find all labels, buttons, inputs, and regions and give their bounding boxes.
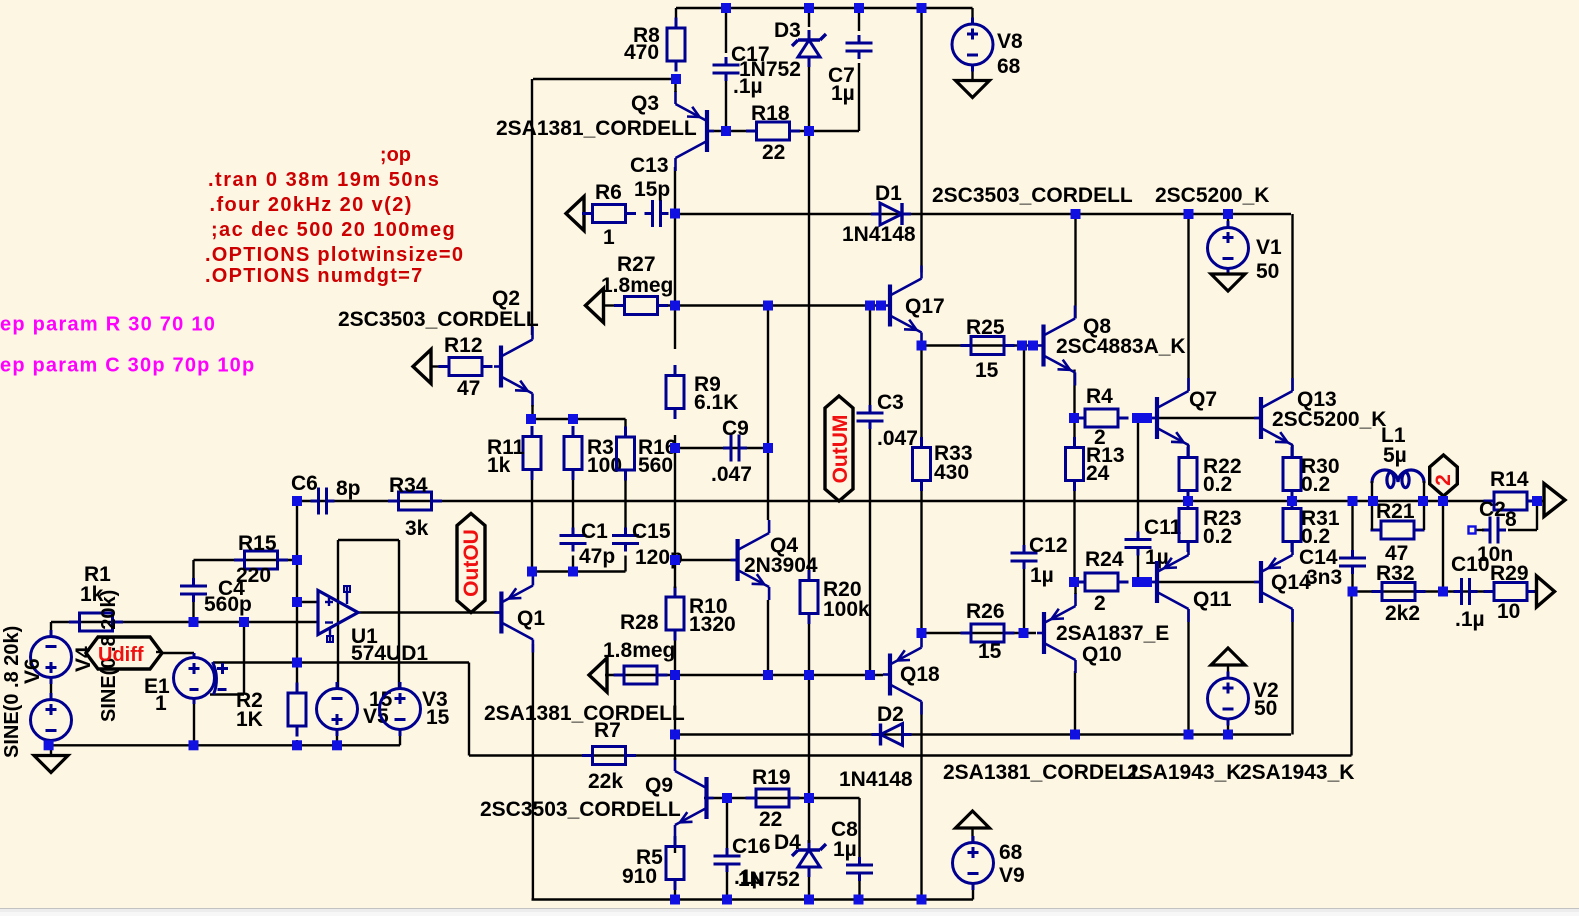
wire C19 riser	[726, 798, 728, 848]
wire D2 rail	[675, 733, 1292, 735]
resistor R33	[913, 437, 931, 491]
wire C17 top	[725, 8, 727, 53]
wire D4 top link	[808, 798, 810, 843]
wire D3 node down to R20	[808, 131, 810, 571]
wire C16 bottom	[726, 872, 728, 900]
wire Q4 top junction	[767, 306, 769, 449]
junction R19 left	[722, 793, 732, 803]
capacitor C4	[180, 578, 207, 602]
svg-text:1µ: 1µ	[831, 82, 855, 105]
junction C13/D1	[670, 209, 680, 219]
junction C17 top	[721, 3, 731, 13]
svg-text:C10: C10	[1451, 553, 1490, 576]
svg-text:C13: C13	[630, 154, 669, 177]
svg-text:1k: 1k	[487, 454, 511, 477]
wire R9 bottom to C9	[674, 435, 676, 560]
wire E1 out top	[193, 653, 195, 658]
capacitor C15	[612, 528, 639, 552]
transistor Q18	[883, 635, 922, 715]
wire R13 top	[1073, 418, 1075, 440]
junction spine R28	[670, 670, 680, 680]
svg-text:C16: C16	[732, 835, 771, 858]
wire R20 bottom	[808, 623, 810, 675]
capacitor C8	[846, 857, 873, 881]
svg-text:2SC3503_CORDELL: 2SC3503_CORDELL	[480, 798, 681, 821]
junction node2 bus	[1438, 496, 1448, 506]
wire V6 bottom stub	[50, 741, 52, 746]
svg-text:R34: R34	[389, 474, 428, 497]
zener diode D3	[792, 30, 826, 67]
svg-text:C15: C15	[632, 520, 671, 543]
wire V8 rail to Q17 collector	[920, 8, 922, 273]
wire U1 output to Q1 base	[358, 611, 502, 613]
svg-text:1N752: 1N752	[739, 58, 801, 81]
svg-text:1N4148: 1N4148	[839, 768, 913, 791]
net flag Udiff	[86, 637, 162, 669]
junction C14 bus	[1348, 496, 1358, 506]
voltage source V9	[953, 836, 994, 890]
svg-text:1: 1	[155, 692, 167, 715]
svg-text:C12: C12	[1029, 534, 1068, 557]
capacitor C12	[1011, 545, 1038, 569]
wire output base line upper	[1145, 417, 1261, 419]
wire R8 top stub	[675, 8, 677, 28]
wire feedback riser	[1350, 592, 1352, 756]
wire C17 bottom	[725, 77, 727, 131]
wire R7 feedback line	[469, 754, 1352, 756]
wire V8 gnd stub	[971, 65, 973, 81]
svg-text:R29: R29	[1490, 562, 1529, 585]
junction R30/R31	[1287, 496, 1297, 506]
diode D1	[871, 203, 911, 225]
svg-text:R19: R19	[752, 766, 791, 789]
resistor R3	[564, 426, 582, 480]
wire Q1 collector drop	[532, 644, 534, 900]
junction L1 left	[1368, 496, 1378, 506]
junction bus left	[292, 496, 302, 506]
wire Q4 emitter to R28	[767, 600, 769, 675]
wire Q8 collector riser	[1074, 214, 1076, 319]
wire C11 bottom	[1137, 556, 1139, 583]
svg-text:24: 24	[1086, 462, 1110, 485]
svg-text:.tran 0 38m 19m 50ns: .tran 0 38m 19m 50ns	[208, 169, 440, 191]
wire R6 flag stub	[583, 212, 592, 214]
wire V4-V6 link	[50, 678, 52, 700]
transistor Q7	[1150, 378, 1189, 458]
wire L1 right stub	[1423, 481, 1425, 501]
wire Q11 collector drop	[1187, 609, 1189, 735]
wire C14 top stub	[1351, 501, 1353, 550]
svg-text:8: 8	[1505, 508, 1517, 531]
svg-text:;op: ;op	[380, 144, 411, 166]
svg-text:C2: C2	[1479, 498, 1506, 521]
wire C1 bottom stub	[572, 556, 574, 572]
svg-text:R4: R4	[1086, 385, 1113, 408]
wire R29 to flag	[1526, 590, 1538, 592]
resistor R12	[439, 358, 493, 376]
svg-text:Q3: Q3	[631, 92, 659, 115]
wire Q18 collector drop	[920, 702, 922, 900]
svg-text:10: 10	[1497, 600, 1520, 623]
wire U1 loop left	[337, 540, 339, 689]
wire Q4 base	[675, 559, 738, 561]
junction V1	[1223, 209, 1233, 219]
capacitor C1	[560, 528, 587, 552]
svg-text:50: 50	[1256, 260, 1279, 283]
svg-text:Q1: Q1	[517, 607, 545, 630]
resistor R23	[1179, 498, 1197, 552]
wire Udiff to E1	[162, 652, 194, 654]
resistor R4	[1075, 409, 1129, 427]
svg-text:R6: R6	[595, 181, 622, 204]
capacitor C14	[1339, 550, 1366, 574]
svg-text:1.8meg: 1.8meg	[603, 639, 675, 662]
junction Q10 base net	[1019, 628, 1029, 638]
net flag OutUM	[825, 396, 853, 501]
output flag (bus)	[1544, 484, 1565, 517]
resistor R14	[1484, 492, 1538, 510]
ground below V8	[956, 81, 990, 98]
junction V2 net	[1223, 730, 1233, 740]
wire R27 flag stub	[603, 304, 616, 306]
svg-text:R25: R25	[966, 316, 1005, 339]
junction D3 top	[804, 3, 814, 13]
wire V+ top rail	[676, 7, 973, 9]
wire fb elbow down	[468, 663, 470, 756]
wire R21 left stub	[1371, 501, 1373, 530]
junction Q17 emitter	[917, 341, 927, 351]
svg-text:100k: 100k	[823, 598, 870, 621]
wire R12 flag stub	[430, 365, 440, 367]
svg-text:22: 22	[759, 808, 782, 831]
junction Q4 collector net	[763, 301, 773, 311]
svg-text:D3: D3	[774, 19, 801, 42]
wire C9 left	[675, 447, 768, 449]
svg-text:Q11: Q11	[1193, 588, 1232, 611]
resistor R2	[288, 683, 306, 737]
svg-text:C9: C9	[722, 417, 749, 440]
svg-text:Q17: Q17	[905, 295, 945, 318]
svg-text:R26: R26	[966, 600, 1005, 623]
capacitor C10	[1454, 578, 1478, 605]
wire C3 lower	[869, 429, 871, 675]
resistor R1	[69, 613, 123, 631]
junction C3 top	[865, 301, 875, 311]
wire R8 bottom to Q3 emitter node	[533, 78, 676, 80]
junction C8 bottom	[854, 895, 864, 905]
svg-text:2SA1381_CORDELL: 2SA1381_CORDELL	[484, 702, 685, 725]
junction Q18 emitter net	[917, 628, 927, 638]
wire R11 bottom	[531, 470, 533, 572]
svg-text:1µ: 1µ	[1030, 564, 1054, 587]
wire R5 bottom	[674, 888, 676, 900]
svg-text:OutOU: OutOU	[460, 529, 483, 597]
wire R15 line	[194, 559, 298, 561]
svg-text:15: 15	[975, 359, 999, 382]
svg-text:D4: D4	[774, 831, 801, 854]
window bottom scrollbar strip	[0, 908, 1579, 916]
wire C15 bottom stub	[624, 556, 626, 572]
capacitor C3	[857, 405, 884, 429]
voltage source V3	[380, 682, 421, 736]
junction C17 bottom	[721, 126, 731, 136]
wire R16 bottom to C15	[624, 470, 626, 532]
wire output base line lower	[1145, 581, 1261, 583]
svg-text:Q14: Q14	[1271, 571, 1311, 594]
svg-text:2N3904: 2N3904	[744, 554, 818, 577]
junction E1 ctrl	[239, 617, 249, 627]
inductor L1	[1372, 470, 1424, 488]
wire output bus right	[1526, 500, 1545, 502]
wire V5 bottom stub	[336, 730, 338, 746]
svg-text:8p: 8p	[336, 477, 361, 500]
capacitor C16	[714, 848, 741, 872]
junction C7 top	[854, 3, 864, 13]
wire C12 riser	[1023, 346, 1025, 546]
voltage source V8	[952, 18, 993, 72]
wire V2 gnd stub	[1227, 665, 1229, 678]
wire Q13 emitter to R30	[1291, 444, 1293, 448]
wire C14 bottom stub	[1351, 574, 1353, 592]
wire D4 bottom	[808, 876, 810, 900]
wire Q13 collector riser	[1291, 214, 1293, 391]
junction V6 gnd	[44, 740, 54, 750]
wire Q9 emitter to R5	[674, 838, 676, 853]
junction E1 out	[189, 740, 199, 750]
wire E1 out bottom	[193, 699, 195, 746]
transistor Q1	[494, 573, 533, 653]
resistor R27	[614, 297, 668, 315]
wire R2 top stub	[296, 663, 298, 687]
junction Q18 collector net	[917, 895, 927, 905]
svg-text:C11: C11	[1144, 516, 1182, 539]
wire U1 supply loop top	[338, 539, 399, 541]
wire V8 drop	[971, 8, 973, 24]
wire C7 top	[858, 8, 860, 31]
junction Q7 collector	[1184, 209, 1194, 219]
svg-text:2SA1943_K: 2SA1943_K	[1240, 761, 1354, 784]
wire R21 right stub	[1423, 501, 1425, 530]
svg-text:2SA1943_K: 2SA1943_K	[1127, 761, 1241, 784]
svg-text:1N4148: 1N4148	[842, 223, 916, 246]
transistor Q9	[675, 758, 714, 838]
wire V2 bottom stub	[1227, 719, 1229, 735]
wire Q9 collector link	[674, 756, 676, 761]
wire C12 lower	[1023, 569, 1025, 633]
junction C12 top	[1017, 341, 1027, 351]
wire U1 loop right	[398, 540, 400, 689]
unconnected port C2	[1469, 527, 1476, 534]
resistor R26	[961, 624, 1015, 642]
wire Q10 emitter link	[1074, 582, 1076, 594]
port flag at R28	[589, 658, 607, 692]
resistor R8	[667, 18, 685, 72]
resistor R5	[666, 836, 684, 890]
svg-text:2SA1837_E: 2SA1837_E	[1056, 622, 1169, 645]
wire D3 top	[808, 8, 810, 27]
junction C4 bottom	[189, 617, 199, 627]
wire C2 port stub	[1476, 529, 1484, 531]
junction L1 right	[1418, 496, 1428, 506]
wire E1 ctrl bottom	[210, 693, 244, 695]
resistor R32	[1372, 583, 1426, 601]
wire R2 bottom stub	[296, 740, 298, 745]
junction Q11 collector net	[1184, 730, 1194, 740]
svg-text:47p: 47p	[579, 545, 615, 568]
vcvs E1	[174, 653, 229, 704]
net flag 2	[1430, 455, 1458, 496]
svg-text:Q10: Q10	[1082, 643, 1122, 666]
junction D3 bottom	[804, 126, 814, 136]
resistor R31	[1283, 498, 1301, 552]
wire node D1 to bias bus	[674, 214, 676, 306]
svg-text:15p: 15p	[634, 178, 670, 201]
svg-text:2SC4883A_K: 2SC4883A_K	[1056, 335, 1186, 358]
ground above V2	[1211, 648, 1245, 665]
svg-text:C3: C3	[877, 391, 904, 414]
svg-text:D1: D1	[875, 182, 902, 205]
svg-text:R28: R28	[620, 611, 659, 634]
svg-text:Q9: Q9	[645, 774, 673, 797]
op-amp U1	[318, 586, 358, 642]
svg-text:R12: R12	[444, 334, 483, 357]
wire Q8 emitter to R4	[1073, 370, 1075, 419]
capacitor C7	[846, 35, 873, 59]
wire C4 bottom stub	[192, 602, 194, 622]
junction node2/R32	[1438, 587, 1448, 597]
wire node2 drop	[1442, 501, 1444, 592]
junction R20 bottom net	[804, 670, 814, 680]
resistor R7	[582, 747, 636, 765]
svg-text:OutUM: OutUM	[829, 415, 852, 484]
svg-text:50: 50	[1254, 697, 1277, 720]
wire R10 bottom to R28	[674, 639, 676, 675]
resistor R10	[666, 587, 684, 641]
wire U1 +input	[297, 601, 318, 603]
voltage source V6	[31, 693, 72, 747]
wire ground rail left	[49, 744, 400, 746]
wire R13 bottom to R24	[1073, 488, 1075, 583]
svg-text:0.2: 0.2	[1203, 473, 1232, 496]
wire node R19/D4	[808, 675, 810, 798]
wire V1 stub	[1227, 214, 1229, 228]
transistor Q10	[1037, 593, 1076, 673]
wire R16 top elbow	[624, 419, 626, 437]
svg-text:Q18: Q18	[900, 663, 940, 686]
junction D2 left	[670, 730, 680, 740]
junction R4 left	[1069, 413, 1079, 423]
resistor R18	[746, 122, 800, 140]
wire Vbias bus y=305	[658, 304, 886, 306]
svg-text:V8: V8	[997, 30, 1023, 53]
transistor Q2	[494, 327, 533, 407]
junction Q4 base net	[670, 555, 680, 565]
wire C3 riser	[869, 306, 871, 406]
svg-text:1N752: 1N752	[738, 868, 800, 891]
svg-text:ep param R 30 70 10: ep param R 30 70 10	[0, 314, 216, 336]
junction C9 left	[670, 443, 680, 453]
svg-text:2: 2	[1432, 474, 1455, 486]
junction R11 top	[526, 414, 536, 424]
ground below V1	[1211, 274, 1245, 291]
junction R19 right / D4	[804, 793, 814, 803]
transistor Q17	[883, 266, 922, 346]
svg-text:6.1K: 6.1K	[694, 391, 738, 414]
svg-text:.four 20kHz 20 v(2): .four 20kHz 20 v(2)	[210, 194, 413, 216]
junction Q17 base	[876, 301, 886, 311]
wire R24 line	[1075, 581, 1087, 583]
transistor Q14	[1254, 542, 1293, 622]
capacitor C17	[713, 57, 740, 81]
junction C16 bottom	[722, 895, 732, 905]
svg-text:Q2: Q2	[492, 287, 520, 310]
wire L1 left stub	[1371, 481, 1373, 501]
net flag OutOU	[457, 514, 485, 613]
wire gnd stub left	[50, 745, 52, 755]
svg-text:68: 68	[999, 841, 1023, 864]
wire R3 bottom to C1	[572, 470, 574, 532]
svg-text:5µ: 5µ	[1383, 444, 1407, 467]
junction Q8 base	[1028, 341, 1038, 351]
wire C11 top	[1137, 418, 1139, 532]
resistor R34	[388, 492, 442, 510]
junction Q1 emitter	[527, 567, 537, 577]
wire bottom V- rail	[532, 898, 974, 900]
junction U1 +in	[292, 597, 302, 607]
svg-text:1: 1	[603, 226, 615, 249]
junction D4 bottom	[804, 895, 814, 905]
resistor R25	[961, 337, 1015, 355]
svg-text:2: 2	[1094, 592, 1106, 615]
svg-text:R21: R21	[1376, 500, 1415, 523]
port flag at R27	[586, 289, 604, 323]
wire C2 drop	[1536, 501, 1538, 530]
port flag at R6	[566, 197, 584, 231]
svg-text:2SC5200_K: 2SC5200_K	[1272, 408, 1386, 431]
svg-text:Q7: Q7	[1189, 388, 1217, 411]
svg-text:2SA1381_CORDELL: 2SA1381_CORDELL	[943, 761, 1144, 784]
resistor R19	[746, 789, 800, 807]
wire Q2 collector riser	[531, 79, 533, 335]
wire Udiff flag stub	[156, 651, 162, 653]
junction Q8 collector	[1071, 209, 1081, 219]
svg-text:R24: R24	[1085, 548, 1124, 571]
transistor Q8	[1037, 306, 1076, 386]
wire R4 line	[1075, 417, 1087, 419]
junction R5 bottom	[670, 895, 680, 905]
junction R22/R23	[1183, 496, 1193, 506]
wire Q9 base to R19	[704, 797, 860, 799]
wire V3 bottom stub	[399, 730, 401, 746]
wire R25 line	[922, 344, 1037, 346]
wire Q3 emitter link	[674, 79, 676, 92]
junction C9 right	[763, 443, 773, 453]
svg-text:R18: R18	[751, 102, 790, 125]
wire R32 feedback line	[1353, 590, 1496, 592]
capacitor C9	[723, 435, 747, 462]
svg-text:C1: C1	[581, 520, 608, 543]
resistor R9	[666, 365, 684, 419]
ground above V9	[956, 811, 990, 828]
wire R28 line	[605, 674, 883, 676]
junction C1 bottom	[568, 567, 578, 577]
junction R2 top	[292, 658, 302, 668]
wire spine to D2 rail	[674, 675, 676, 735]
junction Q10 collector net	[1070, 730, 1080, 740]
svg-text:470: 470	[624, 41, 659, 64]
wire Q4 base node to R10	[674, 560, 676, 588]
wire Q3 collector drop	[674, 167, 676, 214]
